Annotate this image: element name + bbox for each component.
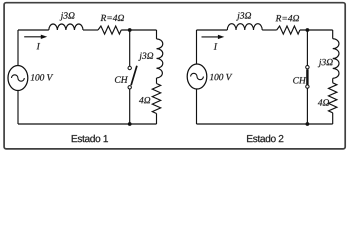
node C junction dot top of switch branch (C2) bbox=[306, 28, 310, 32]
AC source V2 100 V (C2) bbox=[187, 64, 207, 89]
wire top segment 3 (C1) bbox=[121, 29, 156, 31]
label CH (C2) bbox=[293, 77, 306, 83]
current arrow I (C1) bbox=[24, 35, 47, 39]
wire switch branch upper (C1) bbox=[129, 30, 131, 66]
wire left branch lower (C1) bbox=[17, 91, 19, 125]
switch CH open (C1) bbox=[128, 66, 137, 89]
caption Estado 2 bbox=[247, 135, 283, 142]
label I (C1) bbox=[37, 43, 41, 49]
label 100 V (V2) bbox=[210, 74, 233, 80]
wire left branch upper (C1) bbox=[17, 30, 19, 66]
label j3ohm (L4) bbox=[318, 59, 333, 67]
wire bottom (C1) bbox=[18, 123, 157, 125]
wire switch branch lower (C1) bbox=[129, 89, 131, 124]
resistor R3 R=4ohm (C2) bbox=[277, 26, 300, 34]
wire right branch upper (C1) bbox=[156, 30, 158, 39]
inductor L2 j3ohm vertical (C1) bbox=[157, 39, 163, 78]
node B junction dot bottom of switch branch (C1) bbox=[128, 122, 132, 126]
switch CH closed (C2) bbox=[306, 66, 309, 89]
inductor L4 j3ohm vertical (C2) bbox=[333, 39, 339, 79]
wire top segment 2 (C1) bbox=[83, 29, 98, 31]
label I (C2) bbox=[214, 43, 218, 49]
resistor R4 4ohm vertical (C2) bbox=[329, 83, 337, 113]
wire right branch lower (C2) bbox=[332, 113, 334, 124]
wire switch branch lower (C2) bbox=[306, 89, 308, 125]
label 100 V (V1) bbox=[31, 74, 54, 80]
AC source V1 100 V (C1) bbox=[8, 66, 28, 91]
label j3ohm (L2) bbox=[138, 53, 153, 61]
node D junction dot bottom of switch branch (C2) bbox=[306, 122, 310, 126]
current arrow I (C2) bbox=[202, 35, 225, 39]
wire right branch middle (C1) bbox=[156, 78, 158, 84]
wire right branch middle (C2) bbox=[332, 78, 334, 83]
resistor R1 R=4ohm (C1) bbox=[98, 26, 121, 34]
label CH (C1) bbox=[115, 76, 128, 82]
wire right branch upper (C2) bbox=[332, 30, 334, 39]
inductor L1 j3ohm (C1) bbox=[49, 24, 83, 30]
wire bottom (C2) bbox=[197, 123, 333, 125]
caption Estado 1 bbox=[72, 135, 108, 142]
label R=4ohm (R3) bbox=[276, 15, 300, 21]
wire top segment 2 (C2) bbox=[262, 29, 277, 31]
wire left branch lower (C2) bbox=[196, 89, 198, 124]
wire top segment 1 (C1) bbox=[18, 29, 49, 31]
wire switch branch upper (C2) bbox=[306, 30, 308, 65]
label 4ohm (R4) bbox=[318, 99, 329, 105]
inductor L3 j3ohm (C2) bbox=[227, 24, 262, 30]
wire right branch lower (C1) bbox=[156, 114, 158, 125]
label 4ohm (R2) bbox=[139, 97, 150, 103]
wire left branch upper (C2) bbox=[196, 30, 198, 64]
wire top segment 1 (C2) bbox=[197, 29, 228, 31]
label j3ohm (L3) bbox=[236, 12, 251, 20]
resistor R2 4ohm vertical (C1) bbox=[152, 84, 160, 114]
wire top segment 3 (C2) bbox=[300, 29, 333, 31]
label j3ohm (L1) bbox=[60, 12, 75, 20]
label R=4ohm (R1) bbox=[100, 15, 124, 21]
node A junction dot top of switch branch (C1) bbox=[128, 28, 132, 32]
